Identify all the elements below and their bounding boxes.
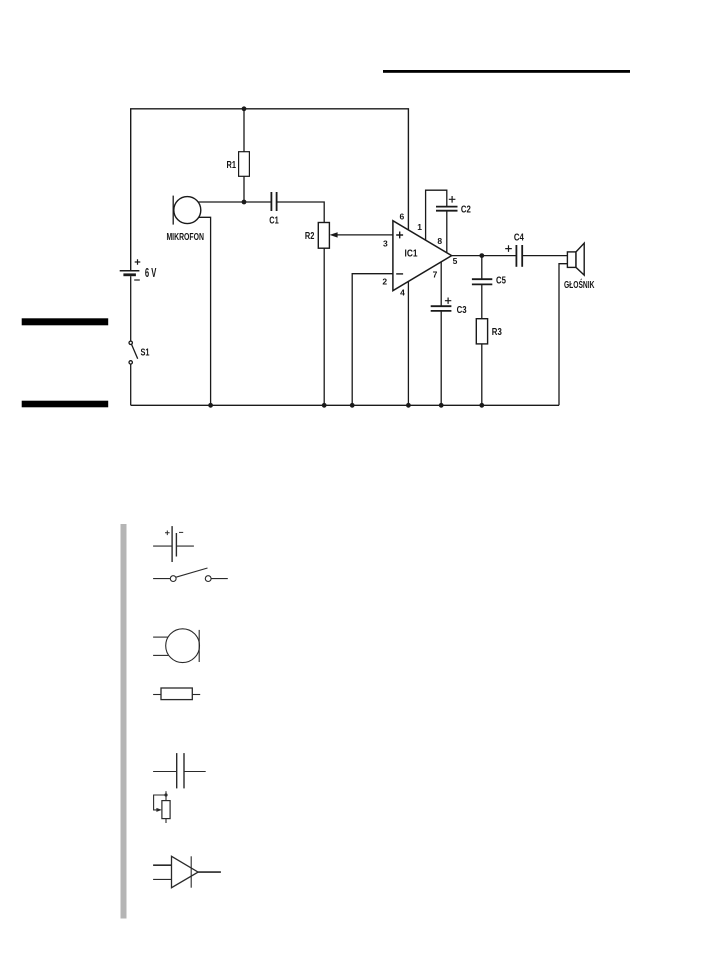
node pin4/rail <box>406 403 411 408</box>
wire C3 to rail <box>440 311 442 405</box>
wire pin5 output <box>452 255 517 257</box>
node R3/rail <box>479 403 484 408</box>
resistor R3 <box>476 319 487 344</box>
svg-text:7: 7 <box>433 270 438 280</box>
legend capacitor symbol <box>153 771 177 773</box>
capacitor C4 <box>515 245 517 267</box>
legend potentiometer symbol <box>165 791 167 800</box>
legend resistor symbol <box>153 694 161 696</box>
switch S1 <box>129 341 132 344</box>
wire R1 top <box>243 109 245 152</box>
svg-text:C4: C4 <box>514 233 524 244</box>
svg-text:C3: C3 <box>457 305 467 316</box>
capacitor C2 <box>436 206 458 208</box>
wire R2 bottom <box>323 248 325 405</box>
wire pin2 <box>352 274 393 406</box>
wire switch to ground rail <box>130 364 132 405</box>
op-amp IC1 <box>393 221 452 291</box>
svg-text:5: 5 <box>453 256 458 266</box>
svg-text:S1: S1 <box>141 347 150 358</box>
speaker GŁOŚNIK <box>567 252 576 268</box>
node R1 / mic / C1 <box>242 200 247 205</box>
node C3/rail <box>439 403 444 408</box>
legend gray bar <box>121 524 127 919</box>
wiper arrow / wire pin3 <box>334 234 393 236</box>
svg-text:R2: R2 <box>305 231 315 242</box>
svg-text:IC1: IC1 <box>405 248 418 259</box>
svg-text:C2: C2 <box>461 204 471 215</box>
wire pin4 <box>407 281 409 405</box>
node R2/rail <box>322 403 327 408</box>
svg-text:2: 2 <box>382 276 387 286</box>
wire C2 to pin8 <box>446 211 448 253</box>
wire top rail <box>131 109 409 270</box>
wire pin7 to C3 <box>440 262 442 306</box>
legend battery symbol <box>153 545 172 547</box>
svg-text:6: 6 <box>400 212 405 222</box>
wire C4 to speaker <box>522 255 567 257</box>
resistor R1 <box>239 152 250 177</box>
wire battery to switch <box>130 276 132 341</box>
svg-text:1: 1 <box>417 222 422 232</box>
svg-text:3: 3 <box>383 238 388 248</box>
wire R1 bottom <box>243 176 245 202</box>
node mic/rail <box>208 403 213 408</box>
legend switch symbol <box>153 578 170 580</box>
black bar left lower <box>22 401 109 408</box>
capacitor C1 <box>270 192 272 211</box>
svg-text:R1: R1 <box>227 160 237 171</box>
ground rail wire <box>131 404 559 406</box>
svg-text:4: 4 <box>400 288 405 298</box>
legend amplifier symbol <box>153 864 171 866</box>
top rule <box>383 70 630 73</box>
svg-text:MIKROFON: MIKROFON <box>166 231 204 243</box>
wire R3 to rail <box>481 344 483 405</box>
svg-text:C1: C1 <box>269 216 279 227</box>
battery 6V <box>120 270 140 272</box>
svg-text:C5: C5 <box>496 275 506 286</box>
legend microphone symbol <box>153 636 168 638</box>
potentiometer R2 <box>318 223 329 249</box>
wire C5 to R3 <box>481 284 483 318</box>
wire speaker return <box>559 264 567 406</box>
wire C1 to R2 <box>277 202 325 223</box>
wire mic bottom to ground <box>199 217 211 405</box>
svg-text:8: 8 <box>437 236 442 246</box>
wire mic to C1 <box>198 201 271 203</box>
node output <box>479 253 484 258</box>
node top rail / R1 <box>242 106 247 111</box>
svg-text:GŁOŚNIK: GŁOŚNIK <box>564 278 595 291</box>
black bar left upper <box>22 318 109 325</box>
wire pin1 bridge <box>426 190 447 240</box>
svg-text:R3: R3 <box>492 327 502 338</box>
microphone MIKROFON <box>172 196 174 225</box>
wire output to C5 <box>481 256 483 280</box>
capacitor C3 <box>431 305 452 307</box>
node pin2/rail <box>350 403 355 408</box>
svg-text:6 V: 6 V <box>145 266 157 280</box>
capacitor C5 <box>472 278 492 280</box>
